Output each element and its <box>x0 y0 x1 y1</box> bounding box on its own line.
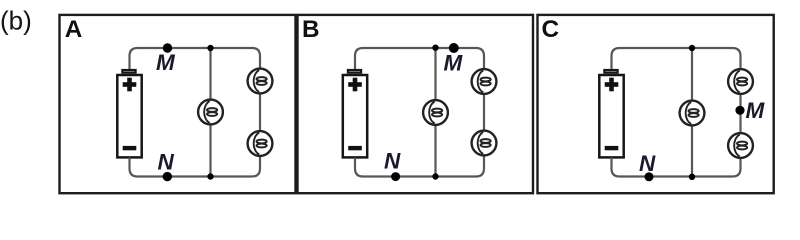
node M dot C <box>735 106 744 115</box>
wire B: middle branch lower <box>434 126 436 177</box>
wire A: bottom wire <box>138 175 253 177</box>
junction dot B bottom <box>432 173 438 179</box>
panel box B <box>298 15 534 193</box>
node N dot B <box>391 172 400 181</box>
lamp B right top <box>472 69 497 94</box>
lamp B right bottom <box>472 131 497 156</box>
wire C: top wire <box>620 47 733 49</box>
wire B: lamp to bottom-right corner <box>476 157 484 177</box>
wire B: middle branch upper <box>434 48 436 99</box>
wire C: middle branch lower <box>691 126 693 176</box>
wire C: bottom wire <box>620 175 733 177</box>
junction dot C top <box>689 45 695 51</box>
wire A: middle branch upper <box>209 48 211 99</box>
wire A: middle branch lower <box>209 125 211 176</box>
lamp C right bottom <box>728 133 753 158</box>
battery C <box>599 70 623 157</box>
wire C: battery top to top-left corner <box>612 48 620 69</box>
wire B: between right lamps <box>483 95 485 130</box>
wire A: top wire <box>138 47 253 49</box>
node N dot A <box>163 172 172 181</box>
wire C: bottom-left corner to battery bottom <box>612 158 620 177</box>
wire A: between right lamps <box>259 94 261 130</box>
svg-text:M: M <box>746 98 766 123</box>
battery B <box>343 70 367 157</box>
panel box A <box>60 15 296 193</box>
wire B: bottom-left corner to battery bottom <box>355 158 363 177</box>
svg-text:M: M <box>444 51 464 76</box>
panel box C <box>538 15 774 193</box>
wire A: battery top to top-left corner <box>130 48 138 69</box>
wire C: middle branch upper <box>691 48 693 100</box>
wire B: bottom wire <box>363 175 476 177</box>
svg-text:C: C <box>542 16 560 43</box>
wire B: battery top to top-left corner <box>355 48 363 69</box>
junction dot C bottom <box>689 174 695 180</box>
svg-text:B: B <box>302 16 320 43</box>
lamp C middle <box>680 101 705 126</box>
lamp A right top <box>248 69 273 94</box>
lamp B middle <box>423 100 448 125</box>
wire A: bottom-left corner to battery bottom <box>130 158 138 177</box>
node N dot C <box>645 172 654 181</box>
node M dot A <box>163 43 172 52</box>
battery A <box>117 70 141 157</box>
wire B: top wire <box>363 47 476 49</box>
svg-text:M: M <box>156 50 176 75</box>
wire B: top-right corner down to lamp <box>476 48 484 68</box>
wire C: between right lamps <box>739 95 741 132</box>
junction dot A top <box>207 45 213 51</box>
junction dot B top <box>432 45 438 51</box>
wire A: top-right corner down to lamp L2 <box>252 48 260 68</box>
node M dot B <box>449 43 459 53</box>
svg-text:N: N <box>384 149 401 174</box>
svg-text:A: A <box>65 16 83 43</box>
svg-text:N: N <box>639 151 656 176</box>
lamp A middle <box>198 100 223 125</box>
lamp C right top <box>728 69 753 94</box>
junction dot A bottom <box>207 173 213 179</box>
wire C: lamp to bottom-right corner <box>733 159 741 177</box>
svg-text:N: N <box>158 149 175 174</box>
svg-text:(b): (b) <box>0 6 32 36</box>
wire C: top-right corner down to lamp <box>733 48 741 68</box>
lamp A right bottom <box>248 131 273 156</box>
wire A: lamp L3 to bottom-right corner <box>252 157 260 177</box>
